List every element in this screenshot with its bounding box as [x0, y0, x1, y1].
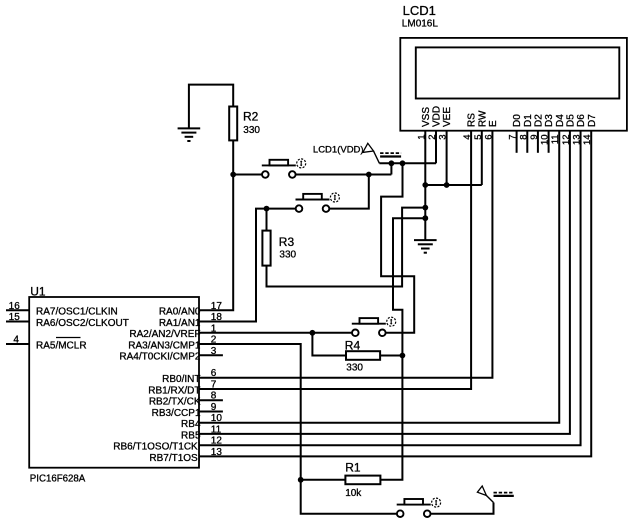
- pin 16 RA7/OSC1/CLKIN of U1: [6, 301, 118, 318]
- svg-text:RA5/MCLR: RA5/MCLR: [36, 340, 87, 351]
- pin 15 RA6/OSC2/CLKOUT of U1: [6, 312, 129, 329]
- svg-text:PIC16F628A: PIC16F628A: [30, 474, 86, 485]
- wire LCD pin11 D4 to U1 RB4: [199, 131, 559, 423]
- push button SW1 (RA0): [262, 159, 306, 178]
- wire RA2 node down to R4: [312, 333, 346, 356]
- wire LCD pin10 D3 stub: [548, 131, 550, 153]
- resistor R4 body: [346, 351, 380, 360]
- svg-text:330: 330: [243, 125, 260, 136]
- wire node RA0 to button SW1: [233, 174, 262, 176]
- pin 4 RA5/MCLR of U1 (MCLR overbar): [6, 335, 87, 352]
- junction R4 / ground branch / LCD RS? node: [400, 353, 406, 359]
- wire LCD pin14 D7 to U1 RB7: [199, 131, 591, 457]
- svg-text:LCD1(VDD): LCD1(VDD): [313, 145, 364, 156]
- wire LCD pin7 D0 stub: [516, 131, 518, 153]
- svg-text:D3: D3: [544, 114, 555, 127]
- wire U1 pin18 RA1 up to node R3: [199, 209, 296, 322]
- wire LCD pin5 RW down to tie: [481, 131, 483, 185]
- svg-text:RB6/T1OSO/T1CKI: RB6/T1OSO/T1CKI: [113, 442, 200, 453]
- power flag (bottom right): [477, 486, 513, 503]
- svg-text:RB5: RB5: [181, 430, 201, 441]
- wire VDD to SW2 right: [328, 175, 368, 209]
- pin 3 RA4/T0CKI/CMP2 of U1: [119, 346, 223, 363]
- junction VSS ground branch A: [422, 205, 428, 211]
- wire LCD pin13 D6 to U1 RB6: [199, 131, 581, 446]
- pin 18 RA1/AN1 of U1: [159, 312, 223, 329]
- resistor R2 body: [229, 107, 237, 141]
- push button SW3 (RA2): [352, 317, 396, 336]
- svg-text:RB3/CCP1: RB3/CCP1: [152, 408, 201, 419]
- wire R2 bottom to node RA0: [232, 140, 234, 174]
- push button SW4 (RA3): [397, 498, 441, 517]
- resistor R1 body: [345, 476, 380, 485]
- svg-text:D6: D6: [576, 114, 587, 127]
- junction SW1-SW2 VDD wire: [366, 172, 372, 178]
- resistor R3 body: [262, 231, 270, 266]
- svg-text:RB7/T1OSI: RB7/T1OSI: [149, 453, 200, 464]
- power flag LCD1(VDD): [363, 143, 401, 163]
- svg-text:RW: RW: [477, 110, 488, 127]
- wire LCD pin8 D1 stub: [526, 131, 528, 153]
- wire VDD rail drop to button row: [390, 163, 392, 174]
- junction RA1 node at R3 top: [264, 206, 270, 212]
- wire ground branch B to R1/R4: [380, 218, 425, 480]
- svg-text:VSS: VSS: [421, 107, 432, 127]
- ground (top left, R2): [178, 128, 201, 141]
- wire LCD pin12 D5 to U1 RB5: [199, 131, 570, 434]
- svg-text:RA7/OSC1/CLKIN: RA7/OSC1/CLKIN: [36, 307, 118, 318]
- wire LCD pin6 E to U1 RB0: [199, 131, 492, 378]
- svg-text:D7: D7: [587, 114, 598, 127]
- wire SW4 right to power flag: [430, 503, 493, 514]
- svg-text:RA4/T0CKI/CMP2: RA4/T0CKI/CMP2: [119, 352, 201, 363]
- wire LCD pin4 RS to U1 RB1: [199, 131, 471, 389]
- svg-text:D4: D4: [555, 114, 566, 127]
- pin 10 RB4 of U1: [181, 413, 222, 430]
- svg-text:15: 15: [9, 312, 21, 323]
- junction RA2 node: [310, 330, 316, 336]
- wire R3 bottom to ground branch: [267, 208, 426, 287]
- wire VDD rail: [379, 162, 436, 164]
- svg-text:RB0/INT: RB0/INT: [162, 374, 200, 385]
- svg-text:LCD1: LCD1: [403, 3, 436, 18]
- LCD LCD1 display window: [416, 47, 620, 98]
- wire LCD pin3 VEE down to tie: [446, 131, 448, 185]
- svg-text:RA6/OSC2/CLKOUT: RA6/OSC2/CLKOUT: [36, 318, 129, 329]
- svg-text:RA3/AN3/CMP1: RA3/AN3/CMP1: [128, 340, 201, 351]
- svg-text:RA0/AN0: RA0/AN0: [159, 307, 201, 318]
- wire R1 left: [301, 479, 346, 481]
- svg-text:R3: R3: [279, 235, 295, 249]
- svg-text:16: 16: [9, 301, 21, 312]
- svg-text:D1: D1: [523, 114, 534, 127]
- junction RA0 node: [230, 172, 236, 178]
- svg-text:RA2/AN2/VREF: RA2/AN2/VREF: [129, 329, 200, 340]
- pin 13 RB7/T1OSI of U1: [149, 447, 222, 464]
- svg-text:D2: D2: [534, 114, 545, 127]
- svg-text:VDD: VDD: [432, 106, 443, 127]
- junction VSS tie: [422, 182, 428, 188]
- pin 17 RA0/AN0 of U1: [159, 301, 223, 318]
- svg-text:330: 330: [279, 250, 296, 261]
- wire LCD pin9 D2 stub: [537, 131, 539, 153]
- svg-text:RS: RS: [467, 113, 478, 127]
- svg-text:R1: R1: [345, 461, 361, 475]
- junction VSS ground branch B: [422, 215, 428, 221]
- pin 2 RA3/AN3/CMP1 of U1: [128, 335, 217, 352]
- svg-text:U1: U1: [30, 284, 46, 298]
- svg-text:R4: R4: [345, 338, 361, 352]
- wire VSS-VEE-RW tie: [425, 184, 482, 186]
- svg-text:RB2/TX/CK: RB2/TX/CK: [149, 397, 201, 408]
- junction VEE tie: [444, 182, 450, 188]
- wire VDD zigzag to SW3 right: [381, 163, 414, 332]
- wire U1 pin2 RA3 down to R1: [199, 344, 301, 480]
- ground (below LCD): [414, 240, 437, 253]
- svg-text:330: 330: [346, 362, 363, 373]
- wire node down to SW4: [301, 480, 397, 514]
- chip U1 body: [29, 297, 199, 468]
- svg-text:R2: R2: [243, 110, 259, 124]
- svg-text:RB1/RX/DT: RB1/RX/DT: [148, 385, 200, 396]
- pin 7 RB1/RX/DT of U1: [148, 380, 217, 397]
- pin 12 RB6/T1OSO/T1CKI of U1: [113, 436, 222, 453]
- svg-text:10k: 10k: [345, 488, 362, 499]
- wire SW1 to VDD drop: [296, 174, 392, 176]
- pin 6 RB0/INT of U1: [162, 368, 217, 385]
- svg-text:D0: D0: [512, 114, 523, 127]
- pin 1 RA2/AN2/VREF of U1: [129, 323, 216, 340]
- wire U1 pin1 RA2 to SW3: [199, 332, 352, 334]
- svg-text:4: 4: [13, 335, 19, 346]
- pin 11 RB5 of U1: [181, 424, 222, 441]
- pin 8 RB2/TX/CK of U1: [149, 391, 223, 408]
- wire LCD pin1 VSS down to ground: [424, 131, 426, 240]
- svg-text:D5: D5: [566, 114, 577, 127]
- wire R3 top: [266, 209, 268, 231]
- pin 9 RB3/CCP1 of U1: [152, 402, 223, 419]
- wire ground to R2 top: [189, 85, 233, 129]
- wire U1 pin17 RA0 up to button row: [199, 175, 233, 311]
- svg-text:RA1/AN1: RA1/AN1: [159, 318, 201, 329]
- svg-text:LM016L: LM016L: [402, 18, 439, 29]
- wire R4 right to ground branch: [380, 355, 402, 357]
- junction VDD rail / button drop: [389, 160, 395, 166]
- LCD LCD1 body: [400, 38, 627, 131]
- junction RA3 / R1 / SW4 node: [298, 477, 304, 483]
- junction VDD rail / zigzag: [400, 160, 406, 166]
- push button SW2 (RA1): [296, 193, 340, 212]
- svg-text:VEE: VEE: [442, 107, 453, 127]
- svg-text:E: E: [488, 120, 499, 127]
- svg-text:RB4: RB4: [181, 419, 201, 430]
- wire LCD pin2 VDD down to rail: [435, 131, 437, 164]
